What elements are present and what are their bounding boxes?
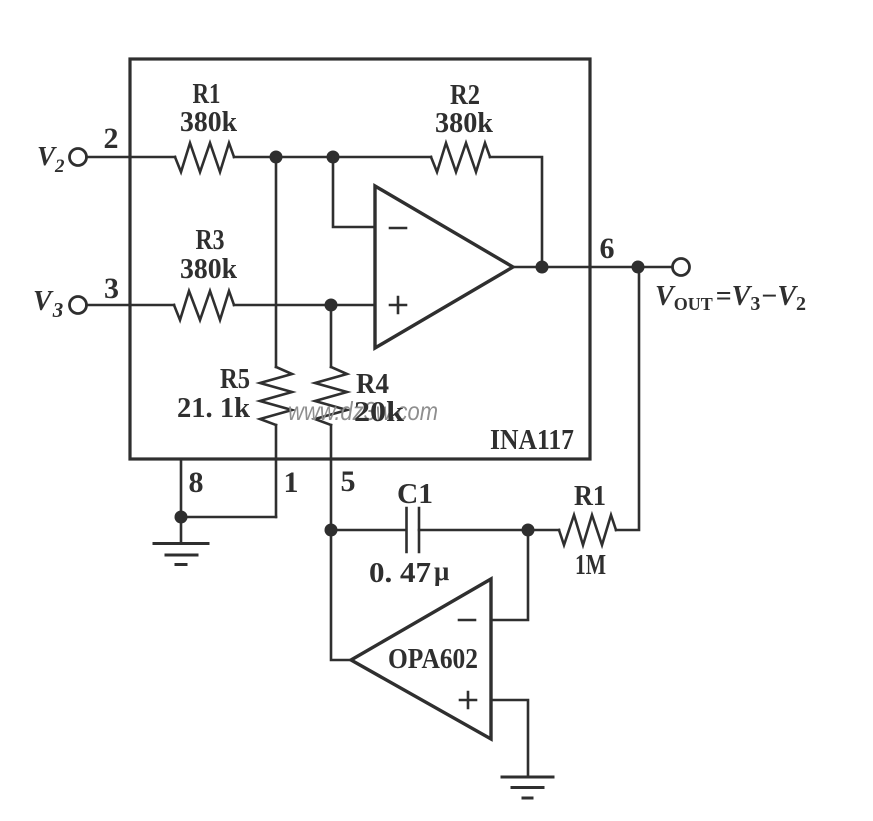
capacitor C1 [407, 508, 420, 552]
wire U2 non-inverting input to ground G2 [491, 700, 528, 777]
pin 8 stub [180, 459, 183, 517]
U2 inverting input marker [459, 619, 475, 622]
junction Vout node [632, 261, 645, 274]
wire node A to R5 [275, 157, 278, 367]
svg-text:R3: R3 [196, 224, 225, 256]
resistor R1 [175, 143, 234, 172]
wire R1 to Vout rail [616, 267, 639, 530]
wire V3 input [87, 304, 175, 307]
A1 non-inverting input marker [390, 297, 406, 313]
svg-text:8: 8 [189, 466, 204, 499]
svg-text:2: 2 [104, 122, 119, 155]
svg-text:OPA602: OPA602 [388, 643, 478, 675]
svg-text:3: 3 [104, 272, 119, 305]
svg-text:380k: 380k [180, 106, 238, 138]
op-amp A1 [375, 186, 513, 348]
wire R4 to pin 5 node [330, 425, 333, 530]
wire pin1 to pin8 junction [181, 516, 276, 519]
resistor R5 [260, 367, 292, 425]
junction A1 output node [536, 261, 549, 274]
resistor R3 [174, 291, 234, 320]
ground G1 [154, 544, 208, 565]
wire A1 output [513, 266, 673, 269]
wire U2 inverting input to feedback node [491, 530, 528, 620]
svg-text:0. 47: 0. 47 [369, 557, 431, 589]
terminal Vout [673, 259, 690, 276]
resistor R1 1M [559, 515, 616, 545]
resistor R4 [315, 367, 347, 425]
U2 non-inverting input marker [460, 692, 476, 708]
wire node A to node B [276, 156, 333, 159]
wire pin5 node to C1 [331, 529, 406, 532]
junction pin8 ground node [175, 511, 188, 524]
wire R2 to output node [490, 157, 542, 267]
svg-text:20k: 20k [354, 396, 405, 428]
svg-text:C1: C1 [397, 478, 433, 510]
svg-text:6: 6 [600, 232, 615, 265]
svg-text:R5: R5 [220, 363, 250, 395]
wire node B to A1 inverting input [333, 157, 375, 227]
IC boundary INA117 [130, 59, 590, 459]
svg-text:μ: μ [434, 556, 449, 586]
wire C1 to feedback node [419, 529, 528, 532]
wire node B to R2 [333, 156, 431, 159]
junction feedback node [522, 524, 535, 537]
wire R3 to A1 non-inverting input [234, 304, 375, 307]
wire R1 to node A [234, 156, 276, 159]
svg-text:380k: 380k [180, 253, 238, 285]
wire U2 output feedback to pin5 node [331, 530, 351, 660]
junction node C [325, 299, 338, 312]
wire node C to R4 [330, 305, 333, 367]
wire V2 input [87, 156, 176, 159]
svg-text:1M: 1M [575, 549, 606, 581]
A1 inverting input marker [390, 227, 406, 230]
svg-text:R1: R1 [574, 480, 606, 512]
junction pin5 node [325, 524, 338, 537]
svg-text:380k: 380k [435, 107, 494, 139]
wire junction to ground G1 [180, 517, 183, 543]
terminal V2 [70, 149, 87, 166]
junction node A [270, 151, 283, 164]
svg-text:INA117: INA117 [490, 424, 574, 456]
ground G2 [502, 777, 553, 798]
junction node B [327, 151, 340, 164]
wire feedback node to R1 1M [528, 529, 559, 532]
op-amp U2 OPA602 [351, 579, 491, 739]
svg-text:21. 1k: 21. 1k [177, 392, 251, 424]
terminal V3 [70, 297, 87, 314]
svg-text:5: 5 [341, 465, 356, 498]
resistor R2 [431, 143, 490, 172]
wire R5 to pin 1 [275, 425, 278, 517]
svg-text:1: 1 [284, 466, 299, 499]
